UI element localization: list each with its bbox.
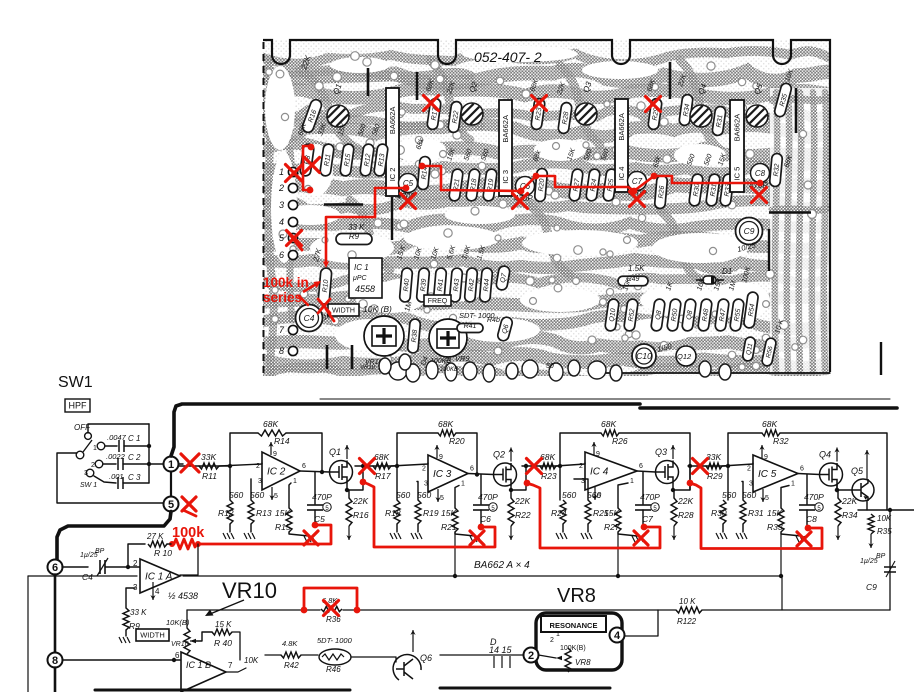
label HPF box [65, 399, 90, 412]
transistor Q5 (PCB) [746, 105, 768, 127]
svg-text:560: 560 [722, 490, 736, 500]
svg-text:560: 560 [587, 490, 601, 500]
svg-text:C7: C7 [642, 514, 653, 524]
thin top wire [320, 398, 890, 400]
node 2 [524, 648, 539, 663]
svg-text:10K: 10K [244, 656, 259, 665]
svg-text:BA662A: BA662A [501, 115, 510, 143]
svg-text:3: 3 [84, 470, 88, 477]
svg-text:WIDTH: WIDTH [332, 308, 355, 315]
svg-text:BP: BP [876, 553, 886, 560]
capacitor 470P C8 [806, 475, 808, 505]
svg-text:R22: R22 [515, 510, 531, 520]
wire bus to resonance [622, 610, 658, 636]
svg-text:C4: C4 [304, 313, 315, 323]
resistor R35 10K (PCB) [774, 82, 793, 118]
svg-text:470P: 470P [478, 492, 498, 502]
resistor R54 100K (PCB) [743, 291, 758, 328]
output bus right [858, 509, 914, 511]
svg-text:R21: R21 [441, 522, 457, 532]
ground C7/R27 [618, 532, 637, 536]
svg-text:VR10: VR10 [360, 365, 376, 371]
main horizontal wire y610 [187, 609, 320, 611]
PCB connector pads 1-8 [278, 167, 298, 356]
svg-text:C 2: C 2 [128, 453, 141, 462]
svg-text:2: 2 [422, 466, 426, 473]
svg-text:R11: R11 [202, 471, 217, 481]
svg-text:5: 5 [765, 495, 769, 502]
svg-text:1: 1 [293, 478, 297, 485]
svg-text:4: 4 [279, 217, 284, 227]
svg-text:1: 1 [461, 481, 465, 488]
svg-text:5: 5 [274, 493, 278, 500]
emitter wire Q5 [866, 501, 868, 510]
jumper wire (PCB) [719, 107, 722, 133]
svg-text:560: 560 [562, 490, 576, 500]
capacitor C8 (PCB) [751, 164, 770, 183]
red X stage4 input [693, 459, 708, 474]
svg-text:BA662A: BA662A [733, 114, 742, 142]
resistor R10 27K (PCB) [318, 268, 332, 305]
wire node1-node5 [170, 472, 172, 497]
op-amp IC 4 [585, 452, 637, 490]
resistor 560 R19 [417, 482, 418, 501]
svg-text:Q8: Q8 [655, 310, 663, 320]
svg-text:R20: R20 [538, 178, 546, 192]
svg-text:IC 1: IC 1 [354, 263, 369, 272]
svg-text:series: series [263, 290, 302, 305]
source resistor 22K R16 [347, 484, 349, 499]
WIDTH box label [136, 629, 169, 641]
capacitor C6 (PCB) [516, 177, 535, 196]
svg-text:470P: 470P [640, 492, 660, 502]
svg-text:VR8: VR8 [557, 585, 596, 607]
svg-text:10K(B): 10K(B) [166, 618, 190, 627]
svg-text:R9: R9 [349, 232, 360, 241]
resistor R40 15K [196, 632, 212, 641]
wire switch to bus [88, 424, 149, 433]
svg-text:VR8: VR8 [575, 658, 591, 667]
svg-text:VR10: VR10 [171, 641, 189, 648]
svg-text:R18: R18 [385, 508, 401, 518]
svg-text:Q2: Q2 [493, 450, 505, 460]
transistor Q5 [837, 485, 852, 490]
svg-text:R16: R16 [353, 510, 369, 520]
svg-text:R43: R43 [453, 278, 461, 292]
svg-text:15 K: 15 K [215, 620, 232, 629]
red X over R36 [324, 601, 339, 616]
wire thermistor to Q6 [351, 657, 396, 662]
transistor Q6 (PCB) [497, 316, 514, 342]
wire node8 to IC1B [63, 659, 182, 661]
svg-text:9: 9 [439, 454, 443, 461]
svg-text:68K: 68K [762, 419, 777, 429]
svg-text:6: 6 [800, 466, 804, 473]
PCB bottom extra blobs [379, 354, 731, 381]
red X node1 output [181, 454, 199, 472]
svg-text:2: 2 [550, 637, 554, 644]
wire node2 left [440, 654, 523, 656]
svg-text:68K: 68K [540, 452, 555, 462]
svg-text:9: 9 [273, 451, 277, 458]
red X over C6 pad (PCB) [513, 194, 528, 209]
svg-text:C4: C4 [82, 572, 93, 582]
red modified trace C5-C8 (PCB) [375, 187, 406, 190]
svg-text:R24: R24 [551, 508, 567, 518]
red X stage1 ground [304, 531, 318, 545]
svg-text:1: 1 [93, 445, 97, 452]
svg-text:1: 1 [791, 481, 795, 488]
node 5 [164, 497, 179, 512]
red X mark pad 1 (PCB) [286, 165, 303, 182]
wire 15K bottom bus [28, 575, 137, 577]
PCB copper trace texture [263, 40, 833, 381]
red wire stage1 bypass [199, 525, 331, 544]
svg-text:560: 560 [417, 490, 431, 500]
svg-text:2: 2 [528, 650, 534, 662]
svg-text:68K: 68K [438, 419, 453, 429]
resistor 560 R24 [559, 466, 561, 500]
op-amp IC1A [140, 559, 180, 593]
red wire to R40 (PCB) [326, 188, 375, 262]
wire stage3 to stage4 riser [673, 466, 690, 490]
svg-text:R26: R26 [612, 436, 628, 446]
svg-text:2: 2 [278, 183, 284, 193]
svg-text:27 K: 27 K [146, 532, 164, 541]
red bypass R36 [304, 588, 357, 610]
resistor row stage1 (PCB) [300, 143, 315, 176]
feedback resistor R20 68K [397, 433, 438, 466]
transistor Q1 (PCB) [327, 105, 349, 127]
svg-text:C 1: C 1 [128, 434, 140, 443]
resistor 15K R27 [618, 483, 628, 508]
drain supply arrow Q2 [510, 448, 512, 462]
red X mark pad 5 (PCB) [287, 231, 302, 246]
jumper wire (PCB) [391, 197, 393, 240]
red X node5 [182, 497, 196, 511]
jumper wire (PCB) [669, 62, 672, 99]
jumper wires PCB bottom (PCB) [327, 345, 352, 369]
svg-text:R 40: R 40 [214, 638, 232, 648]
svg-text:Q8: Q8 [686, 310, 694, 320]
svg-text:5: 5 [440, 495, 444, 502]
resistor 560 R31 [742, 482, 743, 501]
red wire stage2 bypass [363, 482, 495, 547]
resistor 15K R21 [455, 486, 459, 509]
ground C6/R21 [455, 532, 475, 536]
red X stage2 ground [470, 531, 484, 545]
transistor Q3 [637, 471, 656, 472]
svg-text:SW 1: SW 1 [80, 482, 97, 489]
red X over R17 (PCB) [424, 96, 439, 111]
svg-text:IC 1 B: IC 1 B [186, 660, 211, 670]
resistor R32 68K (PCB) [769, 153, 782, 187]
ground C5/R15 [289, 532, 309, 536]
svg-text:3: 3 [258, 478, 262, 485]
drain supply arrow Q3 [672, 445, 674, 459]
svg-text:R39: R39 [420, 278, 428, 292]
resistor 560 R13 [250, 479, 252, 500]
transistor Q7 (PCB) [495, 265, 510, 291]
FREQ silkscreen label (PCB) [424, 295, 451, 306]
svg-text:FREQ: FREQ [428, 298, 448, 305]
svg-text:15K: 15K [275, 508, 290, 518]
svg-text:R20: R20 [449, 436, 465, 446]
svg-text:C9: C9 [866, 582, 877, 592]
jumper wire (PCB) [769, 211, 811, 213]
jumper wire (PCB) [416, 72, 419, 100]
svg-text:6: 6 [639, 463, 643, 470]
svg-text:C9: C9 [744, 226, 755, 236]
input resistor R29 33K [688, 465, 706, 467]
svg-text:R28: R28 [678, 510, 694, 520]
svg-text:IC 3: IC 3 [433, 469, 452, 480]
ground C8/R33 [781, 532, 801, 536]
drain supply arrow Q1 [346, 445, 348, 459]
red X over R23 (PCB) [532, 96, 547, 111]
svg-text:33 K: 33 K [348, 223, 365, 232]
svg-text:6: 6 [302, 463, 306, 470]
ground R9 [125, 630, 127, 636]
svg-text:22K: 22K [677, 496, 693, 506]
svg-text:Q3: Q3 [655, 447, 667, 457]
resistor row stage4 (PCB) [689, 173, 704, 206]
feedback resistor R32 68K [728, 433, 762, 466]
svg-text:5DT- 1000: 5DT- 1000 [317, 636, 353, 645]
transistor Q2 [468, 474, 494, 475]
svg-text:1.5K: 1.5K [628, 264, 645, 273]
svg-text:BA662A: BA662A [617, 113, 626, 141]
svg-text:2: 2 [91, 462, 95, 469]
svg-text:R29: R29 [707, 471, 723, 481]
svg-text:IC 4: IC 4 [590, 467, 609, 478]
svg-text:Q4: Q4 [819, 450, 831, 460]
svg-text:10 K: 10 K [679, 597, 696, 606]
feedback resistor R14 68K [230, 433, 258, 466]
WIDTH silkscreen label (PCB) [328, 304, 359, 316]
resistor R14 68K (PCB) [417, 156, 430, 190]
feedback resistor R26 68K [560, 433, 601, 466]
svg-text:IC 2: IC 2 [388, 168, 397, 182]
svg-text:1: 1 [556, 631, 560, 638]
svg-text:R10: R10 [322, 279, 330, 293]
resistor 560 R12 [229, 466, 231, 500]
svg-text:9: 9 [764, 454, 768, 461]
red arrow to R10 (PCB) [303, 283, 318, 292]
resistor 560 R30 [727, 466, 729, 500]
capacitor C10 electrolytic (PCB) [632, 344, 656, 368]
power arrow IC 2 [270, 442, 272, 455]
resistor R28 22K (PCB) [558, 102, 573, 134]
op-amp IC1B [181, 652, 226, 692]
svg-text:R41: R41 [464, 323, 477, 330]
svg-text:R42: R42 [284, 661, 299, 670]
svg-text:68K: 68K [374, 452, 389, 462]
svg-text:R12: R12 [218, 508, 234, 518]
input resistor R11 33K [178, 465, 199, 467]
jumper wire (PCB) [324, 203, 363, 205]
svg-text:470P: 470P [804, 492, 824, 502]
svg-text:1: 1 [168, 459, 174, 471]
red X stage3 input [527, 459, 542, 474]
thick wire node5 to node6 to node8 [57, 512, 171, 561]
svg-text:8: 8 [52, 655, 58, 667]
wire pot top [186, 610, 188, 628]
wire node1 to stage1 [179, 463, 184, 465]
svg-text:.001: .001 [109, 472, 124, 481]
svg-text:3: 3 [424, 481, 428, 488]
RESONANCE box [536, 613, 622, 670]
node 6 [48, 560, 63, 575]
svg-text:052-407- 2: 052-407- 2 [474, 49, 542, 65]
jumper wire (PCB) [795, 88, 798, 133]
wire C4 to IC1A [105, 566, 140, 568]
svg-text:C8: C8 [806, 514, 817, 524]
source resistor 22K R28 [673, 484, 674, 499]
capacitor C5 (PCB) [399, 174, 418, 193]
svg-text:R122: R122 [677, 617, 697, 626]
svg-text:RESONANCE: RESONANCE [550, 621, 598, 630]
svg-text:R17: R17 [375, 471, 391, 481]
svg-text:560: 560 [229, 490, 243, 500]
svg-text:C 3: C 3 [128, 473, 141, 482]
red X stage4 ground [797, 532, 811, 546]
red X over C8 pad (PCB) [752, 188, 767, 203]
svg-text:6: 6 [175, 651, 180, 660]
bottom cut-off wires [95, 689, 350, 692]
svg-text:IC 2: IC 2 [267, 467, 286, 478]
resistor 560 R18 [396, 466, 398, 500]
svg-text:IC 4: IC 4 [617, 167, 626, 181]
resistor 15K R33 [781, 486, 789, 509]
wire stage1 to stage2 riser [347, 466, 363, 490]
PCB right lower vertical mark [880, 342, 882, 375]
capacitor 470P C7 [642, 472, 644, 504]
svg-text:SW1: SW1 [58, 374, 93, 391]
svg-text:R38: R38 [411, 329, 419, 343]
source resistor 22K R22 [510, 486, 512, 498]
svg-text:Q1: Q1 [329, 447, 341, 457]
input resistor R23 68K [522, 465, 540, 467]
red X stage3 ground [634, 531, 648, 545]
svg-text:C6: C6 [480, 514, 491, 524]
svg-text:5: 5 [168, 499, 174, 511]
diode D1 (PCB) [696, 279, 724, 281]
svg-text:IC 5: IC 5 [733, 167, 742, 181]
svg-text:33K: 33K [706, 452, 721, 462]
collector arrow Q6 [412, 630, 414, 652]
lower resistor row right (PCB) [605, 298, 620, 331]
svg-text:3: 3 [279, 200, 284, 210]
red X over 470P C5 (PCB) [401, 194, 416, 209]
svg-text:2: 2 [747, 466, 751, 473]
op-amp IC 3 [428, 455, 468, 492]
svg-text:68K: 68K [263, 419, 278, 429]
capacitor C4 electrolytic (PCB) [296, 305, 323, 332]
svg-text:3: 3 [749, 481, 753, 488]
svg-text:1: 1 [630, 478, 634, 485]
svg-text:10K (B): 10K (B) [363, 304, 392, 314]
resistor R31 (PCB) [712, 106, 726, 136]
svg-text:R41: R41 [437, 278, 445, 292]
svg-text:15K: 15K [767, 508, 782, 518]
red wire stage3 bypass [526, 483, 660, 548]
svg-text:HPF: HPF [69, 401, 88, 411]
resistor row stage3 (PCB) [569, 168, 584, 201]
svg-text:15K: 15K [441, 508, 456, 518]
svg-text:100KB: 100KB [440, 367, 458, 373]
capacitor 470P C6 [480, 475, 482, 505]
red jumper wire left (PCB) [303, 146, 310, 190]
node 1 [164, 457, 179, 472]
red X mark R8 (PCB) [305, 158, 320, 173]
node 4 [610, 628, 625, 643]
op-amp IC 2 [262, 452, 300, 490]
resistor R29 68K (PCB) [648, 98, 663, 130]
node 8 [48, 653, 63, 668]
resistor R23 68K (PCB) [531, 98, 546, 130]
IC4 BA662A (PCB) [615, 99, 628, 192]
svg-text:560: 560 [742, 490, 756, 500]
source resistor 22K R34 [837, 486, 838, 498]
svg-text:VR10: VR10 [222, 578, 277, 603]
resistor R9 33K [126, 588, 135, 608]
PCB bottom edge segment [600, 372, 830, 374]
resistor R35 10K [868, 514, 874, 534]
svg-text:R23: R23 [541, 471, 557, 481]
svg-text:R46: R46 [326, 665, 341, 674]
svg-text:R32: R32 [773, 436, 789, 446]
svg-text:WIDTH: WIDTH [140, 631, 165, 640]
svg-text:560: 560 [250, 490, 264, 500]
transistor Q11 (PCB) [742, 336, 756, 361]
red X stage2 input [360, 459, 375, 474]
svg-text:4558: 4558 [355, 284, 375, 294]
svg-text:4: 4 [614, 630, 621, 642]
IC3 BA662A (PCB) [499, 100, 512, 196]
resistor R16 22K (PCB) [301, 98, 323, 134]
svg-text:50: 50 [546, 363, 554, 370]
potentiometer VR10 (PCB) [364, 316, 404, 356]
svg-text:33K: 33K [201, 452, 216, 462]
transistor Q4 (PCB) [690, 105, 712, 127]
input resistor R17 68K [355, 465, 373, 467]
resistor R36 6.8K (crossed out) [321, 606, 342, 611]
capacitor C9 electrolytic (PCB) [736, 218, 763, 245]
jumper wire (PCB) [768, 229, 770, 271]
svg-text:8: 8 [279, 346, 284, 356]
svg-text:BA662A: BA662A [388, 107, 397, 135]
wire stage2 to stage3 riser [511, 466, 526, 490]
red X over R29 (PCB) [646, 97, 661, 112]
svg-text:R42: R42 [468, 278, 476, 292]
thick signal wire top [171, 404, 640, 456]
wire R40 down [232, 632, 240, 660]
resistor R56 10K (PCB) [761, 337, 777, 366]
svg-text:R32: R32 [773, 163, 781, 177]
resistor R38 1M (PCB) [407, 319, 420, 354]
red wire stage4 bypass [690, 483, 822, 549]
svg-text:BP: BP [95, 548, 105, 555]
svg-text:22K: 22K [352, 496, 368, 506]
svg-text:R27: R27 [604, 522, 620, 532]
IC2 BA662A (PCB) [386, 88, 399, 196]
svg-text:470P: 470P [312, 492, 332, 502]
svg-text:R 10: R 10 [154, 548, 172, 558]
svg-text:R34: R34 [842, 510, 858, 520]
svg-text:D1: D1 [722, 267, 732, 276]
resistor R22 22K (PCB) [448, 101, 463, 133]
